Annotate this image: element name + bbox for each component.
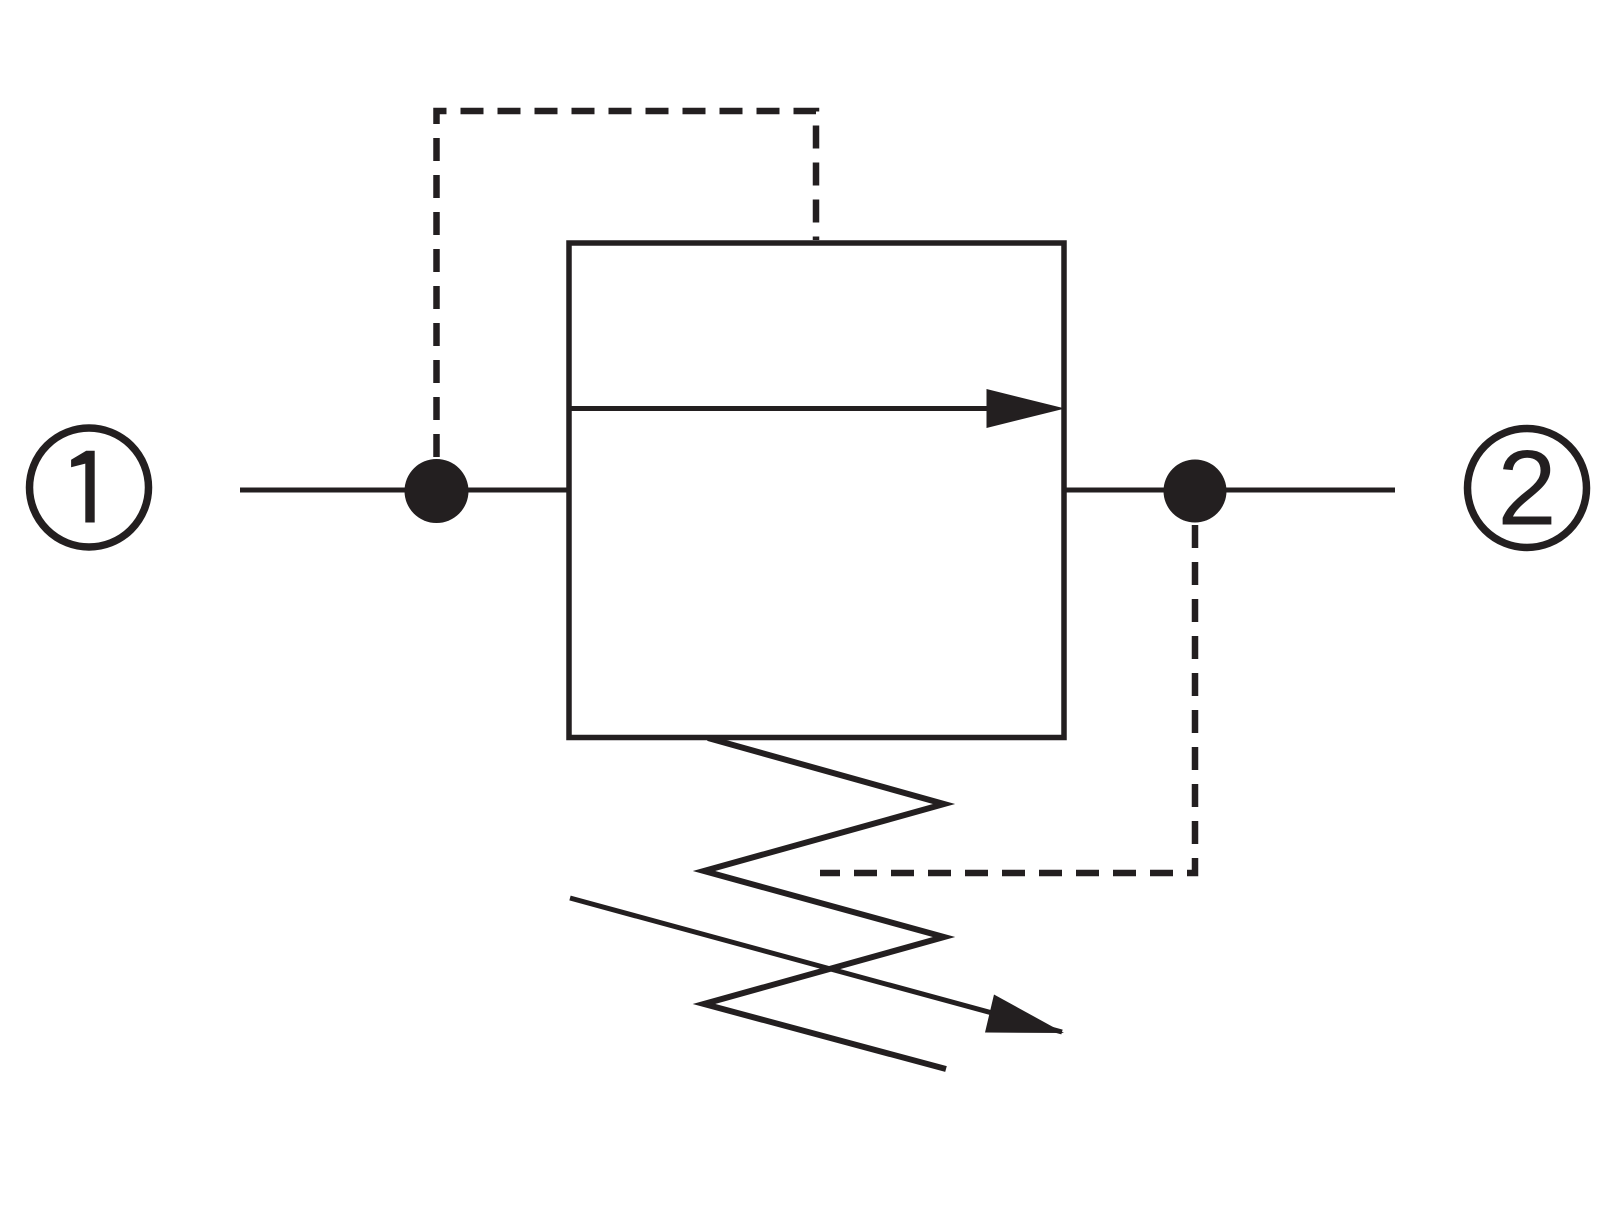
port label 2 (circled 2) [1468, 428, 1587, 548]
port label 1 (circled 1) [30, 428, 149, 547]
node: junction dot at port 1 side [405, 459, 469, 523]
flow arrow inside valve (free flow, left to right) [571, 389, 1065, 428]
pilot line (dashed) from node 1 over the top to valve box top [437, 111, 817, 457]
valve body box [569, 243, 1064, 738]
spring (zigzag) below valve body [704, 738, 946, 1069]
wire: valve body to port 2 [1064, 488, 1395, 493]
adjustment arrow through spring [570, 898, 1064, 1033]
node: junction dot at port 2 side [1164, 460, 1227, 523]
svg-text:2: 2 [1497, 428, 1557, 548]
pilot line (dashed) from node 2 down and left to spring [820, 525, 1195, 873]
wire: port 1 to valve body [240, 488, 569, 493]
